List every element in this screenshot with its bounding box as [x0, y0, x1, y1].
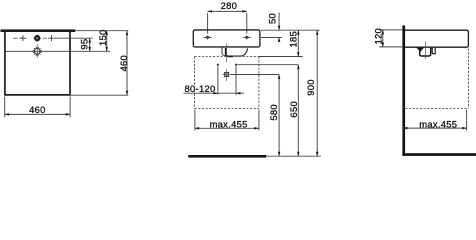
svg-text:max.455: max.455 — [419, 118, 457, 129]
tap hole diamond left — [203, 35, 212, 40]
dimension 460 vertical — [118, 31, 129, 96]
dimension 50 — [267, 13, 281, 42]
svg-text:280: 280 — [221, 0, 238, 11]
extension line 185 bottom — [259, 56, 303, 58]
svg-text:150: 150 — [97, 29, 108, 46]
svg-text:80-120: 80-120 — [185, 83, 216, 94]
svg-text:650: 650 — [288, 101, 299, 118]
extension line plan bottom left — [4, 97, 6, 118]
wall thick line — [402, 25, 405, 156]
centre line front — [226, 44, 228, 81]
dimension 120 — [373, 28, 384, 47]
floor thick bar front — [188, 155, 266, 158]
extension line fixing holes — [237, 64, 298, 66]
dimension 900 — [305, 30, 319, 156]
alt tap hole cross left — [19, 35, 26, 41]
fixing hole right — [235, 64, 237, 66]
svg-text:460: 460 — [118, 55, 129, 72]
extension line hole right down — [235, 66, 237, 95]
floor extension line — [266, 155, 321, 157]
bowl underside right — [233, 48, 247, 56]
centre line side — [425, 42, 427, 60]
dimension 650 — [288, 65, 299, 157]
extension line max455 right — [258, 110, 260, 131]
clearance zone dashed box — [195, 57, 259, 109]
svg-text:95: 95 — [78, 39, 89, 50]
extension line top edge right — [76, 30, 129, 32]
svg-text:460: 460 — [29, 104, 46, 115]
waste outlet symbol — [222, 72, 231, 77]
extension line tap level right — [261, 37, 282, 39]
extension line plan bottom right — [69, 97, 71, 118]
svg-text:185: 185 — [288, 31, 299, 48]
dimension 95 — [78, 38, 91, 51]
dimension max.455 front — [195, 119, 259, 130]
svg-text:120: 120 — [373, 28, 384, 45]
extension line 120 top — [379, 29, 402, 31]
basin side slab — [405, 30, 468, 47]
bowl underside left — [222, 48, 225, 56]
plan inner edge line — [5, 50, 69, 52]
svg-text:50: 50 — [267, 13, 278, 24]
extension line bottom edge right — [71, 94, 128, 96]
floor thick line right — [402, 153, 476, 156]
extension line 120 bottom — [379, 46, 402, 48]
extension line max455 side right — [466, 110, 468, 131]
extension line tap left — [207, 13, 209, 34]
extension line tap right — [246, 13, 248, 34]
drain hole (ticked ring) — [33, 44, 42, 58]
clearance dashed side — [405, 49, 468, 109]
plan back rim thick bar — [1, 29, 76, 32]
fixing hole left — [217, 64, 219, 66]
dimension 460 horizontal — [5, 104, 70, 116]
tap hole — [34, 35, 41, 42]
extension line drain level — [71, 50, 110, 52]
plan body outline — [5, 32, 70, 95]
svg-text:900: 900 — [305, 79, 316, 96]
dimension max.455 side — [403, 118, 467, 129]
extension line waste level — [231, 74, 279, 76]
basin front outline — [193, 30, 260, 47]
plan tap centre dash line — [13, 37, 47, 39]
extension line tap level — [48, 37, 93, 39]
trap pipe side — [420, 48, 431, 56]
dimension 280 — [208, 0, 247, 13]
overflow stub side — [432, 48, 435, 54]
extension line max455 left — [194, 110, 196, 131]
drain funnel side — [417, 48, 424, 52]
extension line rim right — [261, 29, 320, 31]
dimension 150 — [97, 29, 108, 51]
extension line hole left down — [217, 66, 219, 95]
tap hole diamond right — [243, 35, 252, 40]
drain stub front — [226, 48, 234, 56]
dimension 80-120 — [184, 83, 245, 95]
svg-text:max.455: max.455 — [210, 119, 248, 130]
dimension 580 — [268, 75, 280, 157]
alt tap hole cross right — [51, 35, 53, 41]
dimension 185 — [288, 30, 300, 56]
svg-text:580: 580 — [268, 104, 279, 121]
